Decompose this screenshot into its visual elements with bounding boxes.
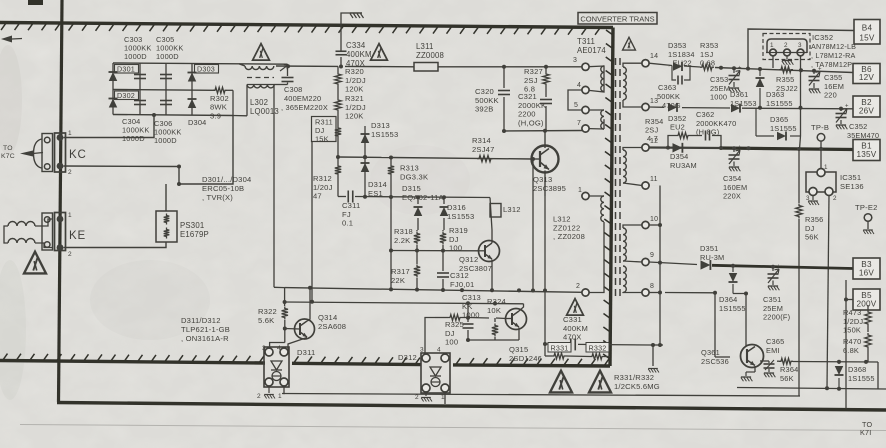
- capacitor C313: [463, 303, 474, 340]
- wire: PS301 to KE pin2: [64, 242, 167, 248]
- svg-text:220: 220: [824, 91, 837, 100]
- label R470: [843, 337, 861, 355]
- svg-text:1: 1: [770, 42, 774, 49]
- capacitor C320: [498, 91, 510, 95]
- diode D351: [701, 260, 711, 270]
- label R321: [345, 94, 366, 121]
- svg-text:120K: 120K: [345, 85, 364, 94]
- capacitor C352 electrolytic: [836, 104, 850, 130]
- svg-text:SE136: SE136: [840, 182, 864, 191]
- svg-text:C353: C353: [710, 75, 728, 84]
- resistor R332: [590, 354, 604, 360]
- wire: Q313 base drive y=158: [391, 158, 532, 160]
- svg-text:D361: D361: [730, 90, 748, 99]
- label R302: [210, 94, 229, 120]
- pin 1: [578, 187, 589, 200]
- label Q312: [459, 255, 492, 273]
- wire: top shield border (hot-side boundary): [0, 23, 613, 35]
- inductor L302 line-filter choke: [233, 64, 288, 116]
- wire: x=660 vertical pins 10-11-8: [646, 186, 662, 346]
- svg-text:R331/R332: R331/R332: [614, 373, 654, 382]
- transformer T311 secondary winding 10-9: [623, 225, 642, 262]
- wire: pin13 line y=107.5: [649, 106, 853, 111]
- label C365: [766, 337, 784, 355]
- svg-text:5: 5: [574, 102, 578, 109]
- warning triangle right of T311: [623, 37, 636, 50]
- svg-text:1/2DJ: 1/2DJ: [843, 317, 863, 326]
- label L311: [416, 42, 444, 60]
- diode D352: [668, 103, 677, 112]
- inductor L311 box: [414, 63, 438, 72]
- wire: collector output y=361: [760, 359, 878, 389]
- label C352: [847, 122, 879, 140]
- wire: R327-C321 branch: [544, 65, 548, 131]
- svg-text:1000D: 1000D: [156, 52, 179, 61]
- svg-text:E1679P: E1679P: [180, 230, 209, 239]
- capacitor C308 electrolytic: [280, 64, 294, 85]
- wire: D351 to B3 thick: [712, 264, 853, 269]
- label R364: [780, 365, 798, 383]
- svg-text:+: +: [738, 66, 742, 72]
- svg-text:R356: R356: [805, 215, 823, 224]
- capacitor C306: [160, 90, 172, 115]
- resistor R353: [700, 64, 714, 70]
- svg-text:35EM470: 35EM470: [847, 131, 879, 140]
- pin 12: [642, 138, 658, 151]
- resistor R470: [865, 333, 871, 362]
- svg-text:1000: 1000: [710, 93, 727, 102]
- label IC351: [840, 173, 864, 191]
- warning triangle bottom pair 2: [589, 371, 611, 393]
- label C312: [450, 271, 474, 289]
- svg-text:2000KK470: 2000KK470: [696, 119, 736, 128]
- wire: node rail y=157: [338, 155, 393, 159]
- label R319: [449, 226, 468, 253]
- wire: thin bottom line y=396: [282, 394, 800, 397]
- svg-text:1S1553: 1S1553: [371, 130, 398, 139]
- label C362: [696, 110, 736, 137]
- svg-text:L311: L311: [416, 42, 434, 51]
- warning triangle bottom pair 1: [550, 371, 572, 393]
- svg-text:+: +: [738, 145, 742, 151]
- svg-text:D312: D312: [398, 353, 417, 362]
- label CONVERTER TRANS box: [578, 13, 657, 25]
- svg-text:R355: R355: [776, 75, 794, 84]
- wire: B5 feed from bottom bus: [844, 280, 853, 409]
- svg-text:D311: D311: [297, 348, 315, 357]
- svg-text:1/20J: 1/20J: [313, 183, 333, 192]
- svg-text:AE0174: AE0174: [577, 46, 606, 55]
- svg-text:C331: C331: [563, 315, 582, 324]
- svg-text:10: 10: [650, 216, 658, 223]
- arrow at left edge: [1, 36, 22, 43]
- transformer T311 secondary winding 14-13: [623, 63, 642, 107]
- pin 11: [642, 176, 658, 189]
- warning triangle bottom-left: [24, 252, 46, 274]
- transistor Q361: [730, 345, 764, 379]
- svg-text:Q361: Q361: [701, 348, 720, 357]
- svg-text:4: 4: [577, 82, 581, 89]
- svg-text:ZZ0122: ZZ0122: [553, 223, 580, 232]
- inductor: AC line filter coil at left edge: [4, 219, 52, 248]
- page-edge artifact top-left: [28, 0, 43, 5]
- pin 2: [576, 283, 589, 296]
- svg-text:EMI: EMI: [766, 346, 780, 355]
- label C363: [657, 83, 681, 110]
- label C311: [342, 201, 360, 228]
- test point TP-E2: [855, 203, 878, 234]
- wire: C311 node line y=197: [338, 177, 490, 200]
- diode D316: [440, 197, 449, 230]
- wire: main HV rail y=65: [239, 64, 582, 69]
- label D301 boxed: [115, 65, 139, 74]
- diode D304: [188, 90, 197, 115]
- label R314: [472, 136, 495, 154]
- svg-text:C351: C351: [763, 295, 781, 304]
- svg-text:L302: L302: [250, 98, 268, 107]
- svg-text:C352: C352: [849, 122, 867, 131]
- svg-text:470G: 470G: [662, 101, 681, 110]
- svg-text:, L78M12-RA: , L78M12-RA: [811, 51, 856, 60]
- svg-text:DG3.3K: DG3.3K: [400, 172, 428, 181]
- svg-text:1: 1: [824, 164, 828, 171]
- ground at Q361 emitter: [741, 372, 755, 381]
- svg-text:C321: C321: [518, 92, 537, 101]
- svg-text:2: 2: [833, 195, 837, 202]
- svg-text:C354: C354: [723, 174, 741, 183]
- svg-text:1: 1: [278, 393, 282, 400]
- svg-text:(H,OG): (H,OG): [518, 118, 544, 127]
- svg-text:26V: 26V: [859, 107, 875, 116]
- capacitor C353 electrolytic: [729, 66, 743, 93]
- label R356: [805, 215, 823, 242]
- svg-text:, TVR(X): , TVR(X): [202, 193, 233, 202]
- ground at IC351 pin3: [808, 196, 819, 206]
- capacitor C355 electrolytic: [809, 67, 823, 94]
- voltage source B2 26V box: [853, 96, 880, 117]
- label C313: [462, 293, 481, 320]
- svg-text:1000D: 1000D: [122, 134, 145, 143]
- pin 9: [642, 252, 654, 266]
- svg-text:ZZ0008: ZZ0008: [416, 51, 444, 60]
- label D361: [730, 90, 757, 108]
- svg-text:1000D: 1000D: [124, 52, 147, 61]
- pin 7: [577, 120, 589, 132]
- svg-text:1: 1: [578, 187, 582, 194]
- svg-text:DJ: DJ: [805, 224, 815, 233]
- transformer T311 primary winding 5-7: [586, 110, 605, 129]
- transformer T311 secondary winding 9-8: [623, 266, 642, 293]
- resistor R302: [213, 87, 233, 115]
- svg-text:TP-E2: TP-E2: [855, 203, 878, 212]
- svg-text:R314: R314: [472, 136, 491, 145]
- svg-text:+: +: [845, 104, 849, 110]
- svg-text:400KM: 400KM: [346, 50, 372, 59]
- label C308: [281, 85, 328, 112]
- svg-text:56K: 56K: [805, 233, 819, 242]
- label R311 boxed: [312, 117, 337, 144]
- transistor Q314: [285, 288, 315, 353]
- svg-text:C334: C334: [346, 41, 366, 50]
- diode D302: [109, 90, 118, 115]
- resistor PS301 fusible: [156, 211, 177, 242]
- wire: thin bottom line y=388: [737, 388, 886, 390]
- test point TP-B: [811, 123, 829, 149]
- ground at top center: [350, 13, 364, 18]
- wire: thick bottom ground bus: [57, 403, 886, 411]
- svg-text:C365: C365: [766, 337, 784, 346]
- svg-text:R327: R327: [524, 67, 543, 76]
- svg-text:K7C: K7C: [1, 153, 15, 160]
- svg-text:1000: 1000: [462, 311, 480, 320]
- label D315: [402, 184, 444, 202]
- label D365: [770, 115, 797, 133]
- label D312: [398, 353, 417, 362]
- svg-text:D364: D364: [719, 295, 737, 304]
- svg-text:47: 47: [313, 192, 322, 201]
- capacitor C351 electrolytic: [768, 264, 782, 290]
- wire: pin12 to B1 135V thick line: [649, 146, 853, 151]
- label C305: [156, 35, 184, 61]
- label D311: [297, 348, 315, 357]
- svg-text:D353: D353: [668, 41, 686, 50]
- svg-text:IC352: IC352: [812, 33, 833, 42]
- label D302 boxed: [115, 91, 139, 100]
- wire: KC pin2 junction run: [64, 165, 182, 169]
- svg-text:160EM: 160EM: [723, 183, 747, 192]
- label TO K7C with arrow: [1, 145, 43, 160]
- svg-text:3: 3: [262, 345, 266, 352]
- wire: bottom shield border mid segment: [292, 356, 421, 364]
- label KE: [69, 230, 86, 242]
- svg-text:1/2DJ: 1/2DJ: [345, 76, 366, 85]
- svg-text:8: 8: [650, 283, 654, 290]
- pin 5: [574, 102, 589, 114]
- svg-text:1S1555: 1S1555: [766, 99, 793, 108]
- svg-text:25EM: 25EM: [763, 304, 783, 313]
- label D354: [670, 152, 697, 170]
- wire: D365 branch: [756, 70, 803, 149]
- capacitor C305: [160, 63, 172, 90]
- svg-text:B4: B4: [862, 23, 873, 32]
- svg-text:2200: 2200: [518, 110, 536, 119]
- label R354: [645, 117, 663, 143]
- svg-text:D314: D314: [368, 180, 387, 189]
- label D352: [668, 114, 686, 132]
- label Q361: [701, 348, 729, 366]
- svg-text:135V: 135V: [857, 150, 877, 159]
- label C304: [122, 117, 150, 143]
- svg-text:1/2CK5.6MG: 1/2CK5.6MG: [614, 382, 660, 391]
- resistor R320: [335, 72, 341, 86]
- svg-text:1S1553: 1S1553: [447, 212, 474, 221]
- wire: D312 pin1 down: [444, 393, 446, 405]
- svg-text:D351: D351: [700, 244, 718, 253]
- wire: IC352 pin2 ground: [782, 56, 793, 65]
- wire: right shield border vertical at x=612: [603, 28, 613, 367]
- svg-text:11: 11: [650, 176, 658, 183]
- svg-text:7: 7: [577, 120, 581, 127]
- svg-text:C308: C308: [284, 85, 302, 94]
- svg-text:R302: R302: [210, 94, 229, 103]
- transistor Q312: [479, 198, 500, 291]
- svg-text:2000KK: 2000KK: [518, 101, 546, 110]
- svg-text:CONVERTER TRANS: CONVERTER TRANS: [580, 15, 654, 24]
- regulator IC351 box: [806, 164, 837, 202]
- label C321: [518, 92, 546, 127]
- svg-text:8WK: 8WK: [210, 103, 227, 112]
- wire: pins 4-5 jumper: [568, 90, 582, 110]
- optocoupler D311: [257, 345, 289, 400]
- svg-text:FJ0,01: FJ0,01: [450, 280, 474, 289]
- pin 13: [642, 98, 658, 111]
- resistor R354 snubber: [668, 133, 702, 148]
- svg-text:2: 2: [784, 42, 788, 49]
- svg-text:R470: R470: [843, 337, 861, 346]
- label D364: [719, 295, 746, 313]
- label C320: [475, 87, 499, 114]
- warning triangle above C331: [567, 299, 584, 316]
- svg-text:TP-B: TP-B: [811, 123, 829, 132]
- svg-text:C363: C363: [658, 83, 676, 92]
- svg-text:22K: 22K: [391, 276, 405, 285]
- diode D365: [777, 132, 786, 141]
- svg-text:ERC05-10B: ERC05-10B: [202, 184, 244, 193]
- svg-text:10K: 10K: [487, 306, 501, 315]
- svg-text:2SA608: 2SA608: [318, 322, 346, 331]
- label C334: [346, 41, 372, 68]
- svg-text:14: 14: [650, 53, 658, 60]
- svg-text:L312: L312: [553, 215, 571, 224]
- svg-text:500KK: 500KK: [657, 92, 680, 101]
- svg-text:R313: R313: [400, 164, 419, 173]
- resistor R321: [335, 98, 341, 112]
- svg-text:2.2K: 2.2K: [394, 236, 410, 245]
- svg-text:, ON3161A-R: , ON3161A-R: [181, 334, 229, 343]
- label Q315: [509, 345, 542, 363]
- svg-text:C355: C355: [824, 73, 842, 82]
- resistor R355: [779, 67, 793, 73]
- resistor R322: [270, 302, 288, 353]
- label R318: [394, 227, 413, 245]
- svg-text:D316: D316: [447, 203, 466, 212]
- svg-text:15V: 15V: [859, 34, 875, 43]
- svg-text:4: 4: [277, 345, 281, 352]
- svg-text:3: 3: [573, 57, 577, 64]
- svg-text:2SC536: 2SC536: [701, 357, 729, 366]
- svg-text:1: 1: [68, 130, 72, 137]
- svg-text:R332: R332: [589, 344, 607, 353]
- wire: bottom shield border left segment: [0, 354, 265, 363]
- voltage source B4 15V box: [854, 20, 880, 45]
- label D316: [447, 203, 474, 221]
- svg-text:L312: L312: [503, 205, 521, 214]
- svg-text:2SJ47: 2SJ47: [472, 145, 495, 154]
- resistor R325: [448, 315, 462, 321]
- resistor R317: [414, 251, 420, 290]
- label C303: [124, 35, 152, 61]
- wire: junction down to y=184 rail: [177, 116, 233, 187]
- svg-text:+: +: [818, 67, 822, 73]
- resistor R356: [796, 147, 802, 396]
- regulator IC352: [763, 34, 810, 60]
- diode D354: [673, 143, 683, 153]
- svg-text:D365: D365: [770, 115, 788, 124]
- svg-text:120K: 120K: [345, 112, 364, 121]
- label C331: [563, 315, 588, 342]
- svg-text:400EM220: 400EM220: [284, 94, 321, 103]
- svg-text:500KK: 500KK: [475, 96, 499, 105]
- diode D363 vertical: [756, 69, 765, 108]
- svg-text:R317: R317: [391, 267, 410, 276]
- svg-text:16EM: 16EM: [824, 82, 844, 91]
- svg-text:T311: T311: [577, 37, 595, 46]
- svg-text:C311: C311: [342, 201, 360, 210]
- svg-text:2SJ: 2SJ: [524, 76, 538, 85]
- svg-text:Q314: Q314: [318, 313, 337, 322]
- resistor R364: [779, 358, 793, 364]
- svg-text:D301/.../D304: D301/.../D304: [202, 175, 251, 184]
- label R331 boxed: [548, 343, 571, 353]
- label R317: [391, 267, 410, 285]
- svg-text:6.8K: 6.8K: [843, 346, 859, 355]
- capacitor C311: [348, 191, 353, 203]
- pin 3: [573, 57, 589, 70]
- svg-text:R473: R473: [843, 308, 861, 317]
- wire: y=302 node line: [283, 288, 524, 306]
- wire: pin1/Q313 emitter vertical: [543, 196, 547, 356]
- wire: primary return vertical x=274: [274, 85, 285, 288]
- capacitor D353 parallel cap: [672, 66, 690, 85]
- capacitor C304: [134, 90, 146, 115]
- svg-text:D354: D354: [670, 152, 688, 161]
- capacitor C321: [540, 100, 552, 104]
- resistor R314: [477, 155, 493, 161]
- capacitor C354 electrolytic: [729, 145, 743, 171]
- wire: B4 feed: [748, 29, 854, 69]
- svg-text:LQ0013: LQ0013: [250, 107, 279, 116]
- svg-text:2SC3807: 2SC3807: [459, 264, 492, 273]
- label R473: [843, 308, 863, 335]
- voltage source B3 16V box: [853, 258, 880, 279]
- resistor R327: [543, 72, 549, 86]
- svg-text:2200(F): 2200(F): [763, 313, 790, 322]
- svg-text:D301: D301: [117, 65, 135, 74]
- svg-text:400KM: 400KM: [563, 324, 588, 333]
- label D314: [368, 180, 387, 198]
- ground below pin8 wires: [648, 345, 659, 373]
- svg-text:R321: R321: [345, 94, 364, 103]
- svg-text:1: 1: [68, 212, 72, 219]
- wire: y=344 node line: [543, 342, 663, 347]
- svg-text:150K: 150K: [843, 326, 861, 335]
- svg-text:2: 2: [576, 283, 580, 290]
- label R322: [258, 307, 277, 325]
- wire: rail y=290 from x=284 to pin2: [285, 286, 582, 293]
- wire: bridge top rail y=63: [113, 62, 239, 65]
- resistor R319: [440, 230, 446, 245]
- svg-text:D311/D312: D311/D312: [181, 316, 221, 325]
- svg-text:1000D: 1000D: [154, 136, 177, 145]
- svg-text:3.9: 3.9: [210, 111, 221, 120]
- svg-text:R319: R319: [449, 226, 468, 235]
- label D368: [848, 365, 875, 383]
- label R312: [313, 174, 333, 201]
- capacitor C334: [336, 13, 351, 67]
- svg-text:1S1555: 1S1555: [770, 124, 797, 133]
- capacitor C303: [134, 63, 146, 90]
- diode D353: [673, 62, 682, 71]
